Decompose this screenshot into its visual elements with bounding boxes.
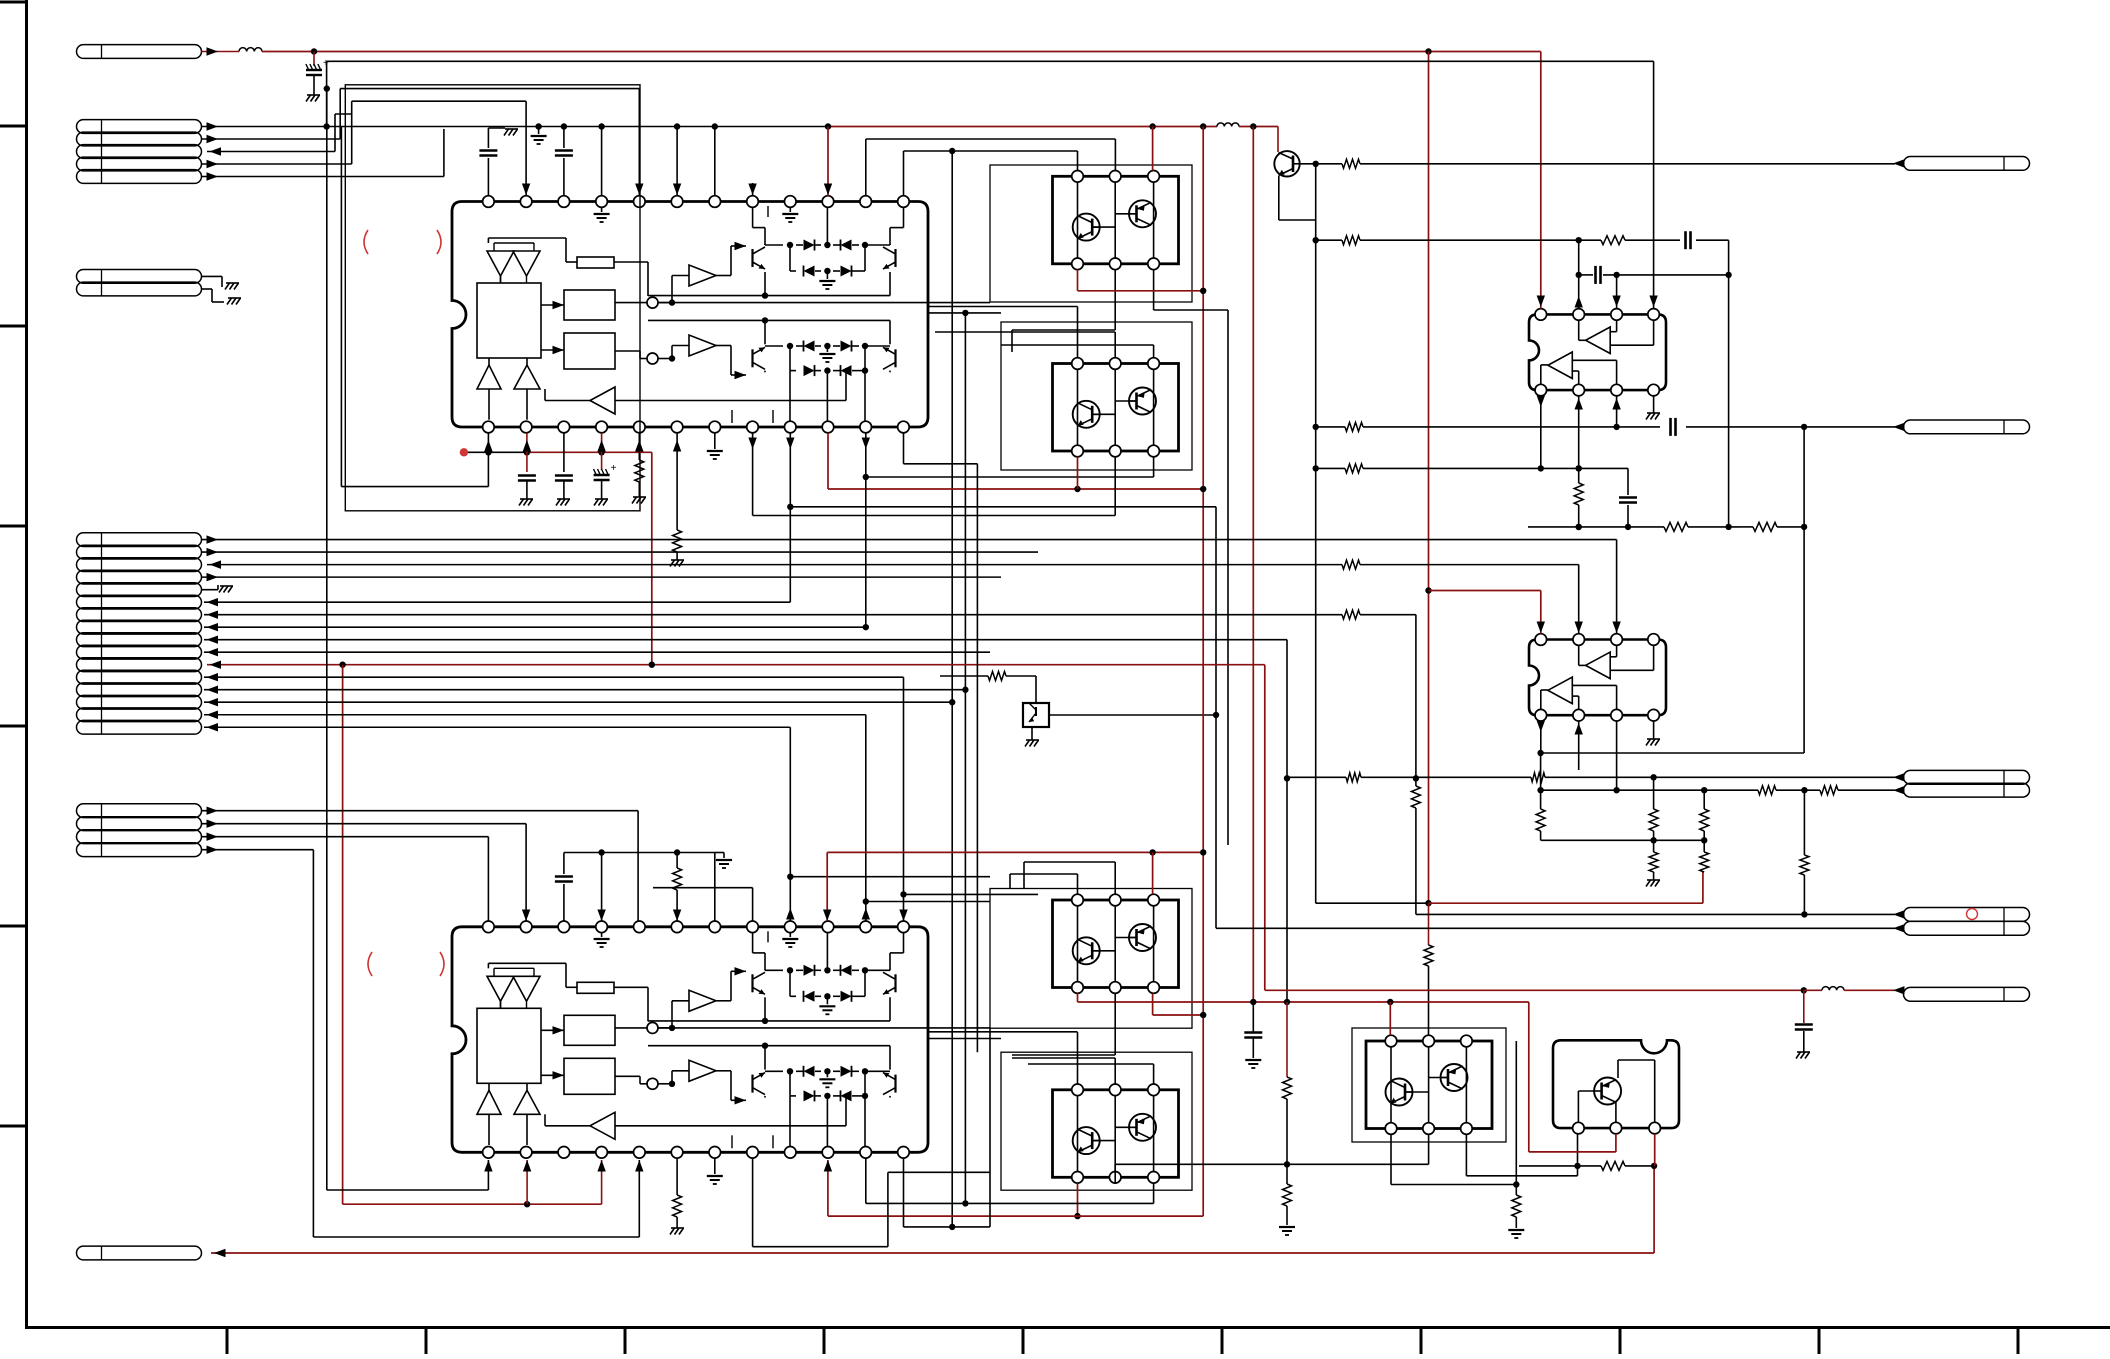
wire CN-E pin2 to U2 pin2 top (202, 823, 527, 825)
ground bar below U1 pin7b (714, 433, 716, 449)
IC U3 amplifier triangle 2 (1548, 352, 1572, 379)
IC U1 block A (564, 290, 615, 320)
red circle marker inside CN-J (1967, 909, 1978, 920)
resistor R8 to y527 (1578, 468, 1580, 483)
wire red vertical x1203 long drop (1202, 127, 1204, 1217)
IC U2 node circles (647, 1022, 658, 1033)
branch y506 to x1216 riser (790, 506, 1216, 508)
bar ground inside U1 pin4 (601, 207, 603, 212)
capacitor C3 above U1 pin3 (563, 158, 565, 196)
IC U2 internal wires (541, 1029, 564, 1031)
red Q4 pin1b to y1216 (1077, 1183, 1079, 1216)
bus line2 (202, 551, 1039, 553)
wire U1 pin10 red up to rail (827, 127, 829, 196)
ground bar below U2 pin7b (714, 1158, 716, 1174)
resistor R9 on U4 pin5 column (1540, 790, 1542, 809)
IC U1 block B (564, 333, 615, 369)
connector CN-E (4-pin pill group) (77, 804, 202, 818)
wire Q6 pin3b jog to Q7 resistor line (1465, 1134, 1467, 1176)
CN-J line1 y914 (1416, 913, 1895, 915)
wire U2 pin8 top to left (752, 888, 754, 921)
op-amp IC U4 body (1529, 640, 1666, 716)
wire CN-B pin4 to U1 pin2 (202, 163, 352, 165)
red test point (460, 448, 468, 456)
diode bridge rows (765, 244, 783, 246)
wire CN-B pin3 output (207, 151, 335, 153)
red drop to Q6 pin1 (1389, 1002, 1391, 1035)
Q1 transistor Qa (1073, 214, 1100, 241)
resistor ladder x1653 (1653, 777, 1655, 809)
wire CN-C pin2 ground (202, 288, 213, 290)
IC U2 buffer output wires (716, 1000, 731, 1002)
wire rail y126 from CN-B pin1 (202, 126, 829, 128)
ground hatch near C2 (505, 128, 518, 130)
frame ticks bottom (226, 1328, 229, 1355)
diode bridge rows (765, 969, 783, 971)
resistor ladder x1704 (1703, 790, 1705, 809)
stage rail (648, 295, 890, 297)
CN-J line2 y928 (1216, 927, 1895, 929)
bus line5 ground (202, 589, 219, 591)
Q7 pins bottom (1573, 1122, 1585, 1134)
Q7 internal wires (1577, 1091, 1579, 1122)
wire Q4 pin2b to y1164 (1114, 1164, 1116, 1183)
Q3 pins top (1072, 894, 1084, 906)
red Q2 pin1b to rail y489 (1077, 457, 1079, 489)
line y312 with x965 drop (928, 312, 1001, 314)
wire U2 pin11b staircase to Q4 pin3b (865, 1158, 867, 1203)
resistor x1804 between CN-I and CN-J (1803, 790, 1805, 855)
IC U4 amplifier triangle 1 (1586, 652, 1611, 679)
capacitor C4 below U1 pin2b (526, 433, 528, 472)
bridge center column and ground (826, 346, 828, 352)
outer boundary around Q2 (1001, 322, 1192, 470)
Q4 pins bottom (1072, 1172, 1084, 1184)
op-amp IC U1 body (452, 202, 928, 428)
transistor array Q6 box (1366, 1041, 1492, 1129)
IC U1 internal wires (541, 304, 564, 306)
bridge center column and ground (826, 933, 828, 971)
wire CN-C pin1 ground (202, 275, 223, 277)
connector CN-K (right bottom pill) (1904, 987, 2030, 1001)
Q6 transistor Qb (1441, 1064, 1468, 1091)
wire Q3 pin2 top feed (1114, 862, 1116, 894)
red bottom rail from CN-F (211, 1252, 1654, 1254)
wire U1 pin12 to Q1 pin1 feed (903, 151, 905, 196)
electrolytic capacitor C1 (313, 52, 315, 67)
wire U3 pin2 up arrow (1578, 240, 1580, 308)
wire Q3 pin1 top feed (1077, 874, 1079, 894)
transistor Q7 box with notch (1553, 1040, 1679, 1128)
branch y477 to Q2 pin3b (866, 476, 1154, 478)
inductor L3 (1804, 989, 1822, 991)
IC U1 buffer output wires (716, 275, 731, 277)
IC U1 output buffer 1 (689, 265, 716, 286)
wire U1 pin6 up to rail (676, 127, 678, 196)
wire U4 pin7 down (1616, 721, 1618, 790)
IC U4 amplifier triangle 2 (1548, 677, 1572, 704)
wire Q1 pin2b down-left (1114, 270, 1116, 331)
stage rail (648, 1020, 890, 1022)
Q1 column wires (1077, 182, 1079, 258)
IC U2 left triangle (590, 1112, 615, 1139)
Q1 pins top (1072, 171, 1084, 183)
IC U2 output buffer 2 (689, 1060, 716, 1081)
inductor L2 (1217, 123, 1239, 127)
wire Q1 pin3b down to x1228 (1153, 270, 1155, 311)
outer boundary around Q6 (1352, 1028, 1506, 1142)
wire red below junction through resistor R20 (1428, 903, 1430, 945)
red rail y1216 to U2 pin10b (828, 1215, 1203, 1217)
outer boundary around Q4 (1001, 1052, 1192, 1190)
Q4 transistor Qa (1073, 1127, 1100, 1154)
wire Q2 pin3 top (1153, 345, 1155, 358)
bar grounds inside U2 (601, 933, 603, 937)
wire red drop x651 to bus11 (651, 452, 653, 664)
IC U2 input double triangle (487, 976, 514, 1001)
resistor chain x1287 (1286, 1002, 1288, 1077)
resistor R4 below U2 pin12 right (1202, 1215, 1204, 1217)
electrolytic C6 below U1 pin4b (601, 433, 603, 470)
Q3 transistor Qa (1073, 937, 1100, 964)
bus line6 (204, 601, 790, 603)
resistor R1 below U1 pin5b (638, 433, 640, 460)
wire drop to U3 pin3 (1616, 275, 1618, 309)
transistor Q5 (1274, 151, 1299, 176)
wire U1 pin4 up to rail (601, 127, 603, 196)
bus line10 (204, 651, 990, 653)
wire CN-B pin2 to U1 pin5 (202, 138, 341, 140)
wire U4 pin5 to y753 (1540, 721, 1542, 753)
resistor R3 above U2 pin6 (676, 853, 678, 869)
outer boundary around Q3 (990, 889, 1192, 1029)
bus line3 to U4 pin2 via resistor (207, 564, 1342, 566)
IC U1 pins bottom (483, 421, 495, 433)
bridge side links (789, 1071, 791, 1096)
inductor L1 (239, 48, 262, 52)
bus line13 to x965 column (204, 689, 965, 691)
IC U1 input double triangle (487, 251, 514, 276)
wire U4 pin6 short (1578, 721, 1580, 770)
wire U3 pin5 down (1540, 396, 1542, 469)
ground bar on rail (538, 127, 540, 135)
bridge side links (789, 970, 791, 996)
vertical x977 from U1 pin12b to Q4 outer (976, 464, 978, 1052)
wire U1 pin12b to x977 drop (903, 433, 905, 464)
red rail y990 to CN-K (1265, 989, 1804, 991)
stage transistor right (894, 349, 896, 367)
resistor R21 x1516 to ground (1515, 1041, 1517, 1185)
line y527 (1528, 526, 1642, 528)
red rail y852 to U2 pin10 (827, 851, 1203, 853)
wire CN-E pin1 to U2 pin5 top (202, 810, 639, 812)
bus line7 to CN-J line1 via resistor ladder (204, 614, 1342, 616)
wire to Q2 pin1 top (928, 306, 1078, 308)
wire Q4 pin2 top feed (1012, 1057, 1115, 1059)
cap C8 below rail (1252, 1002, 1254, 1033)
IC U1 node circles (647, 297, 658, 308)
Q1 transistor Qb (1129, 200, 1156, 227)
vertical x1804 down to y753 (1803, 427, 1805, 753)
connector CN-D (16-pin pill stack) (77, 533, 202, 547)
red parenthesis marks near U2 (368, 952, 372, 976)
svg-text:+: + (611, 463, 617, 474)
bus line1 to U4 pin3 (202, 539, 1617, 541)
page frame bottom border (25, 1326, 2110, 1329)
IC U1 pin index tick marks (767, 206, 769, 217)
IC U1 control block (477, 283, 541, 358)
wire U2 node circle to Q3 outer loop (658, 1027, 990, 1029)
wire Q4 pin3 top (1153, 1064, 1155, 1084)
Q4 pins top (1072, 1084, 1084, 1096)
resistor below U2 pin6b (676, 1158, 678, 1195)
wire U3 pin6 down to y468 (1578, 396, 1580, 469)
wire rail y126 red portion (828, 126, 1217, 128)
wire red rail V1 (262, 51, 1541, 53)
wire red rail y452 (464, 451, 527, 453)
IC U1 up triangles (477, 365, 501, 389)
Q6 transistor Qa (1386, 1079, 1413, 1106)
CN-I line1 y777 (1287, 776, 1346, 778)
wire red corner y903 to resistor ladder (1425, 900, 1431, 906)
op-amp IC U3 body (1529, 314, 1666, 390)
line y852 above U2 (564, 852, 715, 854)
branch y894 (904, 893, 1039, 895)
diode bridge rows (765, 345, 783, 347)
Q6 column wires (1390, 1047, 1392, 1123)
photocoupler PC1 box (1023, 703, 1049, 727)
IC U2 pins top (483, 921, 495, 933)
capacitor C5 below U1 pin3b (563, 433, 565, 472)
wire U1 pin9b down to bus6 (789, 433, 791, 602)
stage transistor left (751, 249, 753, 267)
CN-H line y427 (1316, 426, 1345, 428)
wire U1 pin7 up to rail (714, 127, 716, 196)
bridge center column and ground (826, 207, 828, 245)
wire Q3 pin2b down-left (1114, 993, 1116, 1055)
cap C9 below junction (1803, 990, 1805, 1023)
shield box around U1 left half (345, 85, 640, 511)
Q7 transistor (1594, 1078, 1621, 1105)
IC U2 control block (477, 1008, 541, 1083)
frame ticks left (0, 1, 27, 4)
wire Q2 pin2 top (1114, 332, 1116, 358)
wire red drop to U3 pin1 (1540, 52, 1542, 309)
stage transistor left (751, 349, 753, 367)
Q3 column wires (1077, 906, 1079, 982)
bridge center column and ground (826, 1071, 828, 1077)
line y468 with resistor (1316, 467, 1345, 469)
wire red vertical x1428 (1428, 52, 1430, 904)
wire Q4 pin3b to y1203 line (1153, 1183, 1155, 1203)
wire red drop to Q1 pin3 (1152, 127, 1154, 171)
connector CN-I (right pill pair) (1904, 770, 2030, 784)
wire to Q4 pin1 top (928, 1031, 1078, 1033)
Q2 pins top (1072, 358, 1084, 370)
outer boundary around Q1 (990, 165, 1192, 302)
bridge side links (789, 346, 791, 371)
stage rail (648, 1045, 890, 1047)
stage rail (648, 319, 890, 321)
wire Q6 pin2b to y1164 (1428, 1134, 1430, 1164)
PC1 output wire (1049, 714, 1216, 716)
IC U2 resistor box (577, 982, 614, 993)
wire CN-B pin5 stub (202, 176, 444, 178)
connector CN-H (right pill) (1904, 420, 2030, 434)
IC U2 pin index tick marks (767, 931, 769, 942)
Q2 transistor Qb (1129, 388, 1156, 415)
stage transistor right (894, 1075, 896, 1093)
bus line8 (204, 626, 866, 628)
bus line12 to U2 pin12 top (204, 676, 904, 678)
wire Q6 pin1b to resistor node (1390, 1134, 1392, 1184)
Q7 resistor line (1519, 1165, 1578, 1167)
ground at U3 pin8 (1653, 396, 1655, 413)
stage transistor left (751, 974, 753, 992)
ground bar at y852 right end (715, 852, 725, 854)
red rail y1002 from Q3 pin1b (1078, 1001, 1529, 1003)
wire node circle1 to Q1 outer loop (658, 302, 990, 304)
Q2 pins bottom (1072, 445, 1084, 457)
transistor array Q2 box (1053, 364, 1179, 452)
wire Q4 pin1 top (1077, 1032, 1079, 1084)
bus line15 to U2 pin11 top (204, 714, 866, 716)
diode bridge rows (765, 1070, 783, 1072)
wire x326 long drop to U2 pin1 bottom (324, 85, 330, 91)
wire U1 pin11 to Q1 pin1 feed (865, 139, 867, 196)
bus line16 to U2 pin9 top (204, 726, 790, 728)
PC1 input resistor (940, 675, 988, 677)
bus line14 to x952 column (204, 701, 952, 703)
connector CN-B (5-pin pill group) (77, 120, 202, 134)
wire red branch to U4 pin1 (1429, 590, 1541, 592)
IC U1 pins top (483, 196, 495, 208)
stage transistor left (751, 1075, 753, 1093)
vertical x952 long drop (951, 151, 953, 1227)
Q2 column wires (1077, 369, 1079, 445)
IC U2 output buffer 1 (689, 990, 716, 1011)
ground below C1 (307, 94, 320, 96)
stage pin feed left (752, 933, 754, 953)
wire U1 pin8b to Q2 pin2b (752, 433, 754, 516)
resistor R2 below U1 pin6b (676, 433, 678, 530)
Q4 column wires (1077, 1096, 1079, 1172)
transistor array Q1 box (1053, 176, 1179, 263)
bus line11 red (207, 664, 652, 666)
ground at U4 pin8 (1653, 721, 1655, 739)
line y240 network (1316, 239, 1342, 241)
wire rail corner down to Q5 (1277, 127, 1279, 153)
transistor array Q4 box (1053, 1090, 1179, 1178)
IC U4 pins (1535, 634, 1547, 646)
wire CN-B pin1 tap to bus y61 (326, 61, 328, 126)
IC U2 block A (564, 1015, 615, 1045)
IC U1 resistor box (577, 257, 614, 268)
Q3 transistor Qb (1129, 924, 1156, 951)
wire U1 pin8 stub arrow (752, 183, 754, 196)
Q4 transistor Qb (1129, 1114, 1156, 1141)
IC U4 internal wires (1578, 645, 1580, 665)
stage transistor right (894, 974, 896, 992)
connector CN-G (right top pill) (1904, 157, 2030, 171)
page frame left border (25, 0, 28, 1329)
wire U3 pin7 to CN-H line (1616, 396, 1618, 427)
connector CN-C (2-pin pill group) (77, 270, 202, 284)
IC U1 output buffer 2 (689, 335, 716, 356)
red Q7 pin2 to riser x1529 (1615, 1134, 1617, 1152)
wire U2 pin12b staircase (903, 1158, 905, 1227)
red drop bus11 to U2 pins 2,4 (342, 665, 344, 1204)
Q2 transistor Qa (1073, 401, 1100, 428)
line y1038 stub (928, 1038, 1001, 1040)
wire U1 pin1b loop to CN-B rail (487, 433, 489, 487)
Q7 pin1 stub (1577, 1134, 1579, 1166)
Q1 pins bottom (1072, 258, 1084, 270)
connector CN-A (top single pill) (77, 45, 202, 59)
wire U2 pin7 top to y852 line (714, 853, 716, 922)
red bus11 drop to rail y990 (1264, 665, 1266, 991)
IC U3 internal wires (1578, 320, 1580, 340)
wire Q5 emitter down (1278, 176, 1280, 220)
bar ground inside U1 pin9 (789, 207, 791, 212)
red drop to Q3 pin3 (1152, 852, 1154, 894)
connector CN-J (right pill pair) (1904, 908, 2030, 922)
transistor array Q3 box (1053, 900, 1179, 988)
Q3 pins bottom (1072, 982, 1084, 994)
wire Q5 collector to CN-G with resistor (1300, 163, 1342, 165)
red Q3 pin3b to x1203 via y1015 (1152, 993, 1154, 1015)
red rail riser to Q7 pin3 (1653, 1166, 1655, 1253)
cap C10 above y527 (1627, 505, 1629, 527)
connector CN-F (bottom single pill) (77, 1246, 202, 1260)
wire black stub left of junction to x1315 riser (1316, 902, 1429, 904)
bridge side links (789, 245, 791, 271)
IC U1 left triangle (590, 387, 615, 414)
stage transistor right (894, 249, 896, 267)
wire bus y61 to U3 pin4 (327, 60, 1654, 62)
CN-I line2 y790 (1541, 789, 1758, 791)
wire from CN-A with arrow (202, 51, 240, 53)
bus line4 (202, 576, 1002, 578)
PC1 ground (1031, 727, 1033, 740)
IC U3 pins (1535, 309, 1547, 321)
wire Q4 pin2 top (1114, 1058, 1116, 1084)
wire CN-E pin4 to U2 pin5 bottom loop (202, 849, 314, 851)
cap C7 above U2 pin3 (563, 853, 565, 875)
wire U1 pin11b down to bus8 (865, 433, 867, 627)
wire red vertical x1253 drop (1252, 127, 1254, 1003)
IC U2 block B (564, 1058, 615, 1094)
wire Q4 pin3 top feed (1028, 1063, 1154, 1065)
capacitor C2 above U1 pin1 (487, 158, 489, 196)
red Q1 pin1b loop to x1203 (1077, 270, 1079, 291)
red parenthesis marks near U1 (364, 230, 368, 254)
stage pin feed left (752, 207, 754, 227)
wire U1 pin10b red to x1203 (827, 433, 829, 489)
wire U2 pin4 top (601, 853, 603, 922)
wire U2 pin8b staircase (752, 1158, 754, 1247)
op-amp IC U2 body (452, 927, 928, 1153)
wire CN-E pin3 to U2 pin1 top (202, 836, 489, 838)
bus line9 down x1287 to red rail (204, 639, 1287, 641)
IC U2 pins bottom (483, 1147, 495, 1159)
line y275 cap network (1579, 274, 1593, 276)
IC U2 up triangles (477, 1090, 501, 1114)
IC U3 amplifier triangle 1 (1586, 327, 1611, 354)
